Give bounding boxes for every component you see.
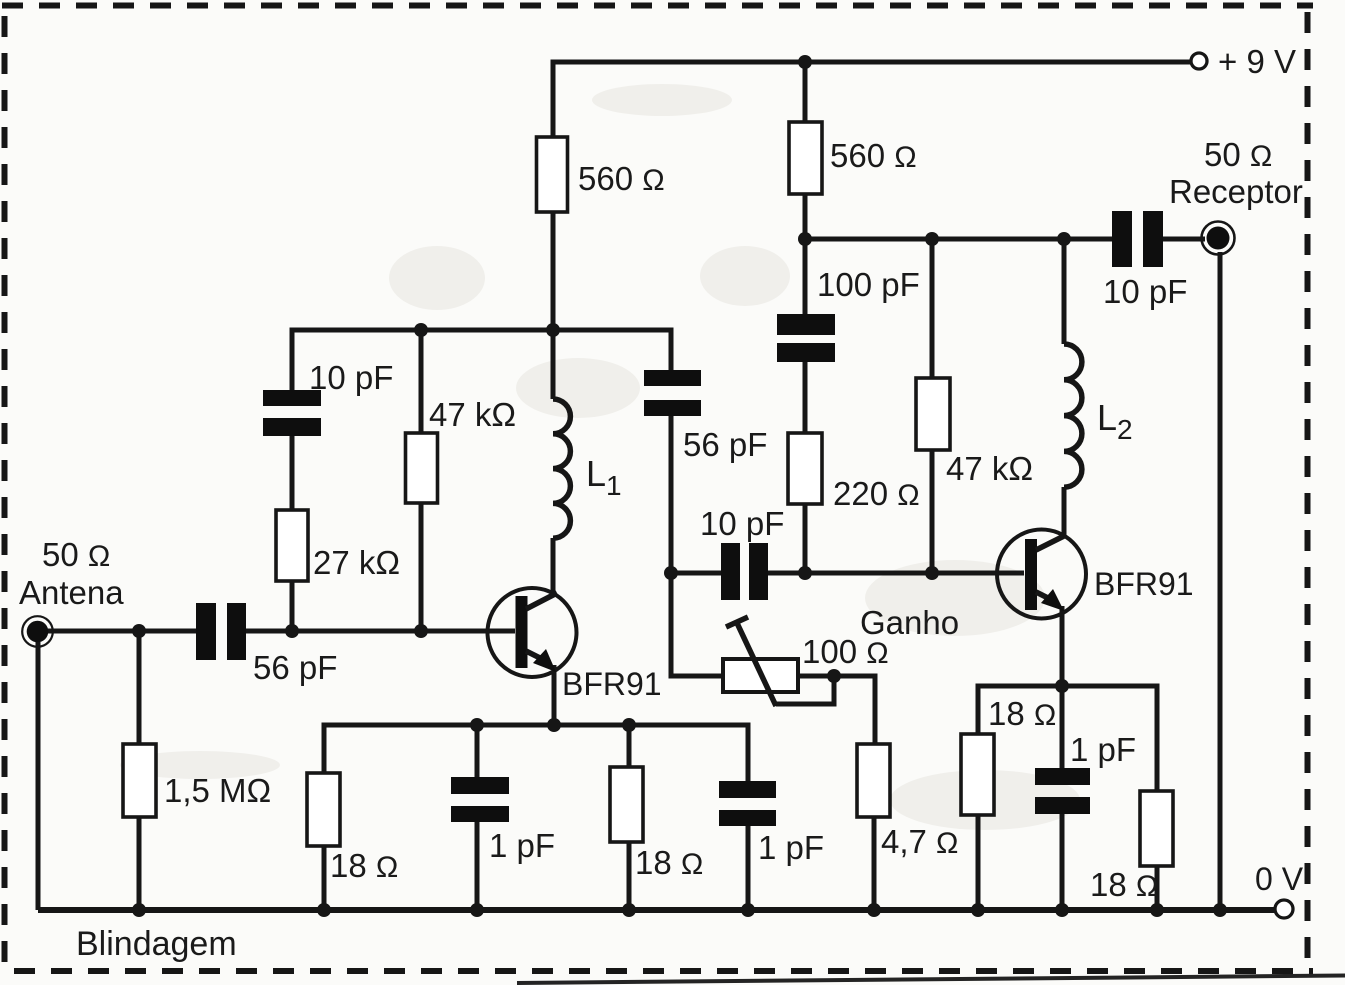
svg-text:47 kΩ: 47 kΩ <box>946 450 1033 487</box>
wire 47k R3 leg lower <box>419 502 424 631</box>
capacitor C6 1pF <box>451 777 555 864</box>
wire collector node horizontal y=330 <box>292 330 671 392</box>
resistor 1.5M <box>123 744 271 817</box>
resistor 4.7ohm <box>857 744 958 860</box>
wire 100pF C8 to 220ohm <box>803 362 808 433</box>
svg-text:10 pF: 10 pF <box>309 359 393 396</box>
capacitor C4 56pF input <box>196 603 337 686</box>
node: junction L1/560 top <box>546 323 560 337</box>
resistor R10 18ohm <box>961 695 1056 815</box>
svg-text:1 pF: 1 pF <box>758 829 824 866</box>
svg-text:+ 9 V: + 9 V <box>1218 43 1296 80</box>
wire 47k R5 legs <box>930 239 935 573</box>
+9V supply rail <box>553 62 1191 139</box>
svg-text:1 pF: 1 pF <box>489 827 555 864</box>
node: junction Q2 emitter <box>1055 679 1069 693</box>
antenna input line y=631 <box>44 629 196 634</box>
svg-text:56 pF: 56 pF <box>253 649 337 686</box>
svg-text:Blindagem: Blindagem <box>76 925 237 963</box>
node: rail junction 18ohm R10 <box>971 903 985 917</box>
capacitor C8 100pF <box>777 266 920 362</box>
node: junction pot wiper tie <box>827 669 841 683</box>
node: rail junction 1pF C6 <box>470 903 484 917</box>
svg-text:1 pF: 1 pF <box>1070 731 1136 768</box>
resistor 220ohm <box>788 433 920 512</box>
wire 47k R3 leg upper <box>419 330 424 434</box>
node: junction L2 top <box>1057 232 1071 246</box>
transistor Q2 BFR91 <box>997 530 1194 619</box>
node: junction emitter <box>547 718 561 732</box>
svg-text:BFR91: BFR91 <box>562 666 662 702</box>
resistor R11 18ohm <box>1090 791 1173 903</box>
wire Q1 emitter node y=725 <box>324 725 748 781</box>
wire 18ohm R10 lower leg <box>976 815 981 910</box>
potentiometer 100ohm Ganho <box>723 604 959 706</box>
resistor R4 560ohm <box>789 122 917 194</box>
node: junction 1.5M top <box>132 624 146 638</box>
svg-text:56 pF: 56 pF <box>683 426 767 463</box>
resistor R5 47k <box>916 378 1033 487</box>
wire Q2 emitter vertical <box>1060 606 1065 686</box>
svg-text:47 kΩ: 47 kΩ <box>429 396 516 433</box>
wire L1 bottom to Q1 collector <box>551 538 556 597</box>
node: rail junction 4.7ohm <box>867 903 881 917</box>
capacitor C2 56pF <box>644 370 767 463</box>
svg-text:100 Ω: 100 Ω <box>802 633 889 670</box>
wire 18ohm R7 legs <box>627 725 632 910</box>
wire L1 top stub <box>551 330 556 399</box>
svg-text:18 Ω: 18 Ω <box>1090 866 1158 903</box>
node: rail junction output drop <box>1213 903 1227 917</box>
wire 18ohm R11 lower leg <box>1155 866 1160 910</box>
wire 18ohm R6 lower leg <box>322 846 327 910</box>
wire tee to 10pF C5 left plate <box>671 571 721 576</box>
svg-text:560 Ω: 560 Ω <box>830 137 917 174</box>
node: junction 47k R5 top <box>925 232 939 246</box>
node: junction 1pF C6 top <box>470 718 484 732</box>
wire 1pF C9 legs <box>1060 686 1065 910</box>
wire pot wiper tie-down <box>776 676 834 704</box>
antenna terminal <box>19 536 124 647</box>
node: rail junction 18ohm R7 <box>622 903 636 917</box>
wire 220ohm to base line <box>803 504 808 573</box>
svg-text:1,5 MΩ: 1,5 MΩ <box>164 772 271 809</box>
resistor R2 27k <box>276 510 400 581</box>
inductor L1 <box>553 399 570 538</box>
svg-text:560 Ω: 560 Ω <box>578 160 665 197</box>
svg-text:18 Ω: 18 Ω <box>988 695 1056 732</box>
node: rail junction 1pF C7 <box>741 903 755 917</box>
wire Q2 emitter node y=686 <box>978 686 1157 791</box>
wire 560ohm R4 top leg <box>803 62 808 122</box>
+9V terminal <box>1191 43 1296 80</box>
wire 4.7ohm lower leg <box>872 817 877 910</box>
wire 1.5M leg upper <box>137 631 142 744</box>
wire Q2 base line y=573 <box>768 571 1024 576</box>
node: junction base line x=805 <box>798 566 812 580</box>
ground rail 0V <box>38 907 1276 913</box>
node: junction 47k top <box>414 323 428 337</box>
wire 56pF C4 to Q1 base <box>246 629 515 634</box>
resistor R7 18ohm <box>610 767 703 881</box>
resistor R3 47k <box>406 396 517 503</box>
wire pot right terminal to 4.7ohm <box>798 676 875 744</box>
0V terminal <box>1255 861 1304 918</box>
svg-text:10 pF: 10 pF <box>700 505 784 542</box>
svg-text:Receptor: Receptor <box>1169 173 1303 210</box>
svg-text:Antena: Antena <box>19 574 124 611</box>
svg-text:4,7 Ω: 4,7 Ω <box>881 823 958 860</box>
wire 1.5M leg lower <box>137 817 142 910</box>
wire Q1 emitter vertical <box>552 665 557 725</box>
svg-text:BFR91: BFR91 <box>1094 566 1194 602</box>
wire 27k R2 to base line <box>290 580 295 631</box>
node: junction 47k bottom <box>414 624 428 638</box>
scan artifact line bottom <box>517 976 1345 984</box>
node: rail junction 18ohm R6 <box>317 903 331 917</box>
capacitor C9 1pF <box>1035 731 1136 814</box>
receptor terminal <box>1169 136 1303 255</box>
wire 560ohm R1 bottom to collector node <box>551 211 556 332</box>
wire 1pF C7 lower leg <box>746 825 751 910</box>
node: junction 18ohm R7 top <box>622 718 636 732</box>
capacitor C7 1pF <box>719 781 824 866</box>
svg-text:100 pF: 100 pF <box>817 266 920 303</box>
wire 10pF C1 to 27k R2 <box>290 433 295 511</box>
node: rail junction 18ohm R11 <box>1150 903 1164 917</box>
transistor Q1 BFR91 <box>488 588 662 702</box>
node: junction 27k bottom <box>285 624 299 638</box>
node: rail junction 1pF C9 <box>1055 903 1069 917</box>
svg-text:Ganho: Ganho <box>860 604 959 641</box>
wire output cap to receptor terminal <box>1163 237 1205 242</box>
svg-text:18 Ω: 18 Ω <box>330 847 398 884</box>
inductor L2 <box>1064 344 1082 487</box>
node: junction at 56pF/10pF tee <box>664 566 678 580</box>
wire 56pF C2 bottom leg down to 10pF tee <box>671 416 723 676</box>
capacitor C10 10pF output <box>1103 211 1187 310</box>
wire 1pF C6 legs <box>475 725 480 910</box>
wire second stage top node y=239 <box>805 237 1113 242</box>
node: junction base line x=932 <box>925 566 939 580</box>
node: junction x=805 y=239 <box>798 232 812 246</box>
wire 560ohm R4 bottom to y=239 node <box>803 194 808 314</box>
resistor R6 18ohm <box>307 773 398 884</box>
wire receptor drop to ground rail <box>1218 252 1223 910</box>
capacitor C1 10pF <box>263 359 393 436</box>
node: rail junction at x=805 <box>798 55 812 69</box>
svg-text:50 Ω: 50 Ω <box>42 536 110 573</box>
svg-text:50 Ω: 50 Ω <box>1204 136 1272 173</box>
node: rail junction 1.5M <box>132 903 146 917</box>
resistor R1 560ohm <box>537 137 665 212</box>
svg-text:27 kΩ: 27 kΩ <box>313 544 400 581</box>
wire antenna down drop <box>36 642 41 910</box>
capacitor C5 10pF coupling <box>700 505 784 600</box>
svg-text:220 Ω: 220 Ω <box>833 475 920 512</box>
svg-text:18 Ω: 18 Ω <box>635 844 703 881</box>
wire L2 bottom to Q2 collector <box>1062 487 1067 537</box>
wire L2 top stub <box>1062 239 1067 344</box>
svg-text:10 pF: 10 pF <box>1103 273 1187 310</box>
svg-text:0 V: 0 V <box>1255 861 1304 897</box>
